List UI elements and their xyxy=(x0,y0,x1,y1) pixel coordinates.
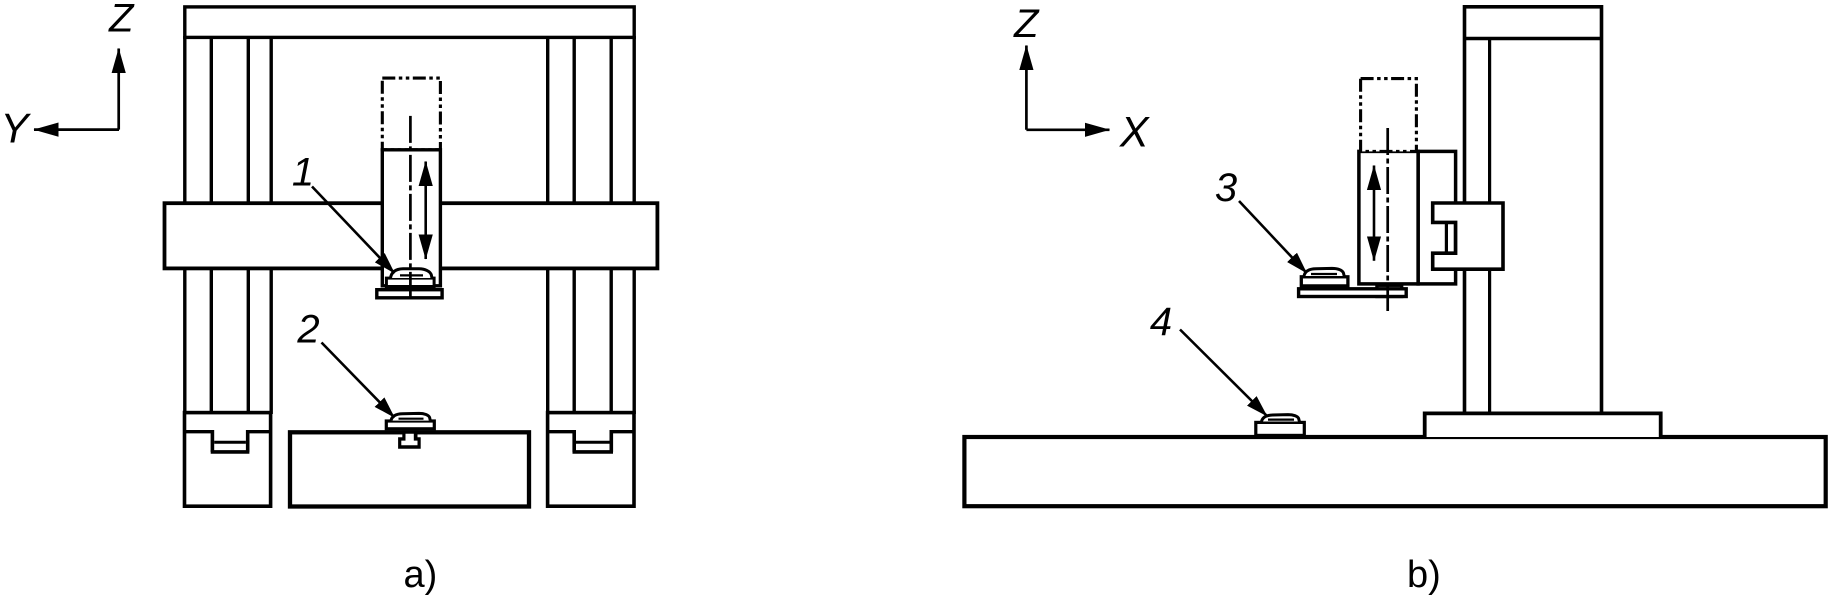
column right inner line 2 xyxy=(573,36,576,414)
svg-text:3: 3 xyxy=(1215,166,1237,210)
svg-text:Z: Z xyxy=(108,0,135,40)
X carriage block xyxy=(1418,151,1456,284)
left foot shoulder line right xyxy=(248,430,271,433)
C bracket inner rail line xyxy=(1445,222,1448,253)
svg-text:2: 2 xyxy=(296,308,319,352)
Z travel double arrow b xyxy=(1373,166,1376,261)
spindle body xyxy=(382,150,440,286)
leader arrow 3 xyxy=(1239,201,1307,273)
column right inner line 1 xyxy=(546,36,549,414)
tower inner guide line xyxy=(1488,39,1491,414)
spindle body b xyxy=(1359,151,1418,284)
probe mount plate b (long) xyxy=(1299,289,1407,297)
left foot shoulder line left xyxy=(185,430,213,433)
spindle phantom b (dash-dot-dot) xyxy=(1361,79,1417,152)
svg-text:a): a) xyxy=(404,554,438,596)
C bracket (clamp on tower) xyxy=(1433,203,1503,269)
left foot slot bottom xyxy=(211,450,250,454)
right foot shoulder line right xyxy=(611,430,634,433)
workpiece plate (4) xyxy=(1256,422,1305,435)
axis b X arrow xyxy=(1026,128,1109,131)
spindle centerline b xyxy=(1386,128,1389,311)
right foot xyxy=(548,413,634,507)
probe dome cap (3) xyxy=(1304,268,1344,276)
axis b Z arrow xyxy=(1025,46,1028,130)
svg-text:X: X xyxy=(1119,109,1151,157)
workpiece dome (2) xyxy=(391,413,430,420)
svg-text:Y: Y xyxy=(0,105,31,152)
probe dome cap xyxy=(391,269,433,278)
left foot slot ledge xyxy=(214,441,246,444)
spindle phantom (retracted position, dash-dot-dot) xyxy=(382,78,440,150)
right foot shoulder line left xyxy=(548,430,575,433)
left foot xyxy=(185,413,271,507)
tower column xyxy=(1465,7,1602,414)
probe dome chord (3) xyxy=(1311,273,1337,275)
right foot slot ledge xyxy=(576,441,610,444)
column left inner line 2 xyxy=(247,36,250,414)
left foot slot wall left xyxy=(211,430,215,452)
leader arrow 2 xyxy=(322,343,395,418)
T-bolt silhouette xyxy=(398,430,421,448)
probe body (1) xyxy=(386,278,434,286)
right foot slot bottom xyxy=(573,450,614,454)
Z travel double arrow xyxy=(424,162,427,260)
probe dome chord xyxy=(400,274,423,276)
top beam xyxy=(185,7,634,38)
column left inner line 1 xyxy=(210,36,213,414)
workpiece dome chord (4) xyxy=(1268,419,1294,421)
tower head band line xyxy=(1465,37,1602,40)
svg-text:4: 4 xyxy=(1150,300,1172,344)
T-bolt white interior xyxy=(401,434,417,445)
leader arrow 4 xyxy=(1180,330,1267,417)
spindle centerline xyxy=(409,116,412,301)
base plate b xyxy=(964,437,1825,506)
workpiece dome (4) xyxy=(1262,415,1300,422)
axis a Y arrow xyxy=(34,128,119,131)
svg-text:1: 1 xyxy=(292,151,314,195)
probe mount plate xyxy=(377,290,442,298)
tower plinth xyxy=(1425,413,1661,437)
left foot slot wall right xyxy=(246,430,250,452)
probe body (3) xyxy=(1301,277,1348,286)
probe holder block b xyxy=(1377,285,1402,296)
table xyxy=(290,432,529,506)
column left outer (leg edge) xyxy=(183,36,186,414)
right foot slot wall left xyxy=(572,430,576,452)
workpiece plate (2) xyxy=(386,421,434,429)
workpiece dome chord xyxy=(399,418,424,420)
column right inner line 3 xyxy=(610,36,613,414)
column left inner line 3 xyxy=(270,36,273,414)
leader arrow 1 xyxy=(312,187,395,274)
axis a Z arrow xyxy=(117,49,120,130)
right foot slot wall right xyxy=(609,430,613,452)
crossbeam (Y carriage) xyxy=(165,203,658,268)
column right outer (leg edge) xyxy=(633,36,636,414)
svg-text:Z: Z xyxy=(1013,2,1040,46)
svg-text:b): b) xyxy=(1407,554,1441,596)
